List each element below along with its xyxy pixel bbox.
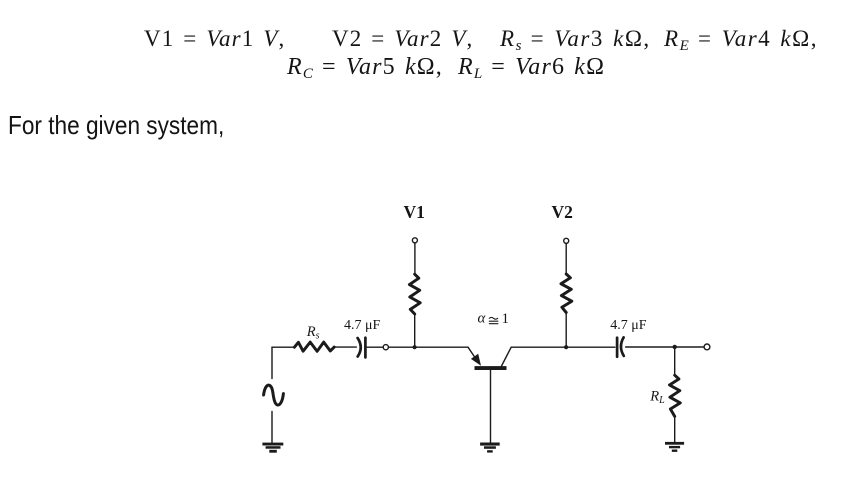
svg-text:4.7 μF: 4.7 μF [610, 318, 647, 333]
label Rs [306, 324, 320, 342]
svg-text:4.7 μF: 4.7 μF [344, 318, 381, 333]
ground (below RL) [665, 442, 684, 452]
equation line 1 seg V1 [144, 27, 285, 50]
capacitor C2 curved plate [621, 337, 624, 356]
terminal: output open circle [704, 344, 710, 350]
wire: resistor to main line [565, 313, 567, 348]
resistor RL [670, 375, 681, 416]
wire: Rs to C1 [334, 346, 356, 348]
resistor RE (V2 branch) [561, 274, 572, 313]
junction dot at V2 branch [564, 345, 568, 349]
ground (below transistor) [480, 443, 500, 453]
svg-text:1: 1 [502, 311, 510, 327]
transistor Q1 emitter arrow [471, 354, 481, 366]
label alpha approx 1 [478, 311, 510, 327]
paragraph: For the given system, [8, 112, 224, 138]
svg-text:α: α [478, 311, 487, 327]
wire: resistor to main line [414, 314, 416, 347]
ground (below source) [262, 443, 283, 453]
label 4.7 uF (C2) [610, 318, 647, 333]
equation line 2 seg RL [458, 55, 605, 82]
svg-text:V2: V2 [552, 202, 573, 222]
wire: source to ground [271, 412, 273, 443]
wire: V2 terminal to resistor [565, 243, 567, 274]
wire: base bar to ground [490, 370, 492, 442]
terminal V2 (open circle) [564, 238, 569, 243]
svg-text:V1: V1 [404, 202, 425, 222]
capacitor C2 straight plate [616, 338, 619, 357]
resistor Rs [294, 342, 334, 351]
svg-text:Rs: Rs [306, 324, 320, 342]
wire: node to transistor emitter [389, 346, 469, 348]
wire: collector to C2 [511, 346, 615, 348]
resistor RC (V1 branch) [409, 274, 420, 314]
wire: left rail corner (vertical above source) [271, 347, 273, 378]
terminal V1 (open circle) [412, 238, 417, 243]
wire: V1 terminal to resistor [414, 243, 416, 274]
wire: C1 to open node [367, 346, 383, 348]
equation line 1 seg Rs [500, 27, 651, 54]
label V2 [552, 202, 573, 222]
transistor Q1 base bar [475, 366, 507, 370]
label V1 [404, 202, 425, 222]
wire: C2 to output terminal [626, 346, 704, 348]
equation line 2 seg RC [287, 55, 443, 82]
transistor Q1 emitter line [468, 347, 476, 359]
wire: RL to ground [674, 416, 676, 441]
junction dot at RL branch [673, 345, 677, 349]
equation line 1 seg RE [664, 27, 818, 54]
node: open terminal after C1 [383, 345, 388, 350]
svg-text:RL: RL [649, 388, 665, 406]
capacitor C1 curved plate [358, 338, 361, 357]
wire: main line, rail to Rs [272, 346, 294, 348]
source Vs sine squiggle [264, 385, 284, 405]
label RL [649, 388, 665, 406]
capacitor C1 straight plate [364, 338, 367, 358]
junction dot at V1 branch [413, 345, 417, 349]
transistor Q1 collector line [502, 347, 512, 366]
label 4.7 uF (C1) [344, 318, 381, 333]
wire: junction to RL [674, 347, 676, 375]
equation line 1 seg V2 [332, 27, 473, 50]
